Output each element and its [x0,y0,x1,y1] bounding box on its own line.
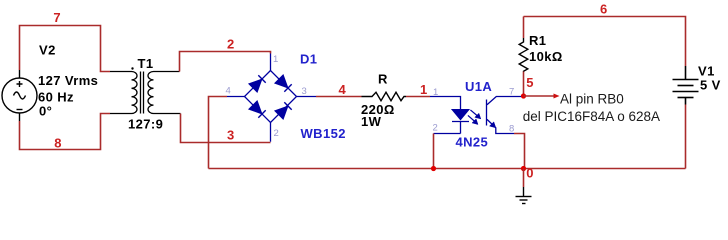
svg-text:5: 5 [526,75,533,90]
battery V1 [673,66,699,105]
svg-text:R: R [378,71,388,86]
pin 2 stub [270,123,272,142]
light arrow 1 [470,110,480,119]
pin 4 stub [227,96,245,98]
wire net 6 (top rail) [524,17,686,67]
diode D1d (bottom-right edge, points to right) [275,102,292,119]
transformer T1 [110,72,181,114]
svg-text:0: 0 [526,165,533,180]
pin 1 lead [430,97,461,110]
svg-text:4: 4 [226,86,231,97]
svg-text:8: 8 [54,136,61,151]
svg-text:V1: V1 [698,63,715,78]
svg-text:R1: R1 [529,33,546,48]
wire opto pin2 to rail [433,134,435,169]
junction dot opto pin2 [431,166,436,171]
source V2 [2,70,37,121]
ground [523,169,525,188]
svg-text:127:9: 127:9 [128,117,163,132]
transistor base bar [486,100,488,126]
svg-text:1: 1 [273,54,278,65]
LED stub down [460,122,462,134]
LED bar [452,121,469,123]
wire net 2 [180,52,271,72]
svg-text:3: 3 [302,86,307,97]
bridge rectifier D1 [227,54,316,142]
svg-text:2: 2 [227,37,234,52]
pin 1 stub [270,54,272,71]
wire net 3 [181,114,271,143]
svg-text:127 Vrms: 127 Vrms [38,73,98,88]
emitter [487,119,514,133]
wire node5 to RB0 arrow [524,95,555,97]
svg-text:T1: T1 [138,56,154,71]
svg-text:D1: D1 [300,51,317,66]
node 5 junction dot [521,93,526,98]
diode D1b (top-right edge, points to right) [275,75,292,92]
diode D1a (left-top edge, points to top) [249,75,266,92]
svg-text:1: 1 [420,82,427,97]
svg-text:del PIC16F84A o 628A: del PIC16F84A o 628A [523,109,660,124]
svg-text:Al pin RB0: Al pin RB0 [560,92,624,107]
battery bottom wire [685,105,687,169]
svg-text:3: 3 [227,128,234,143]
wire net 8 [20,114,111,150]
svg-text:U1A: U1A [465,79,492,94]
wire net 4 [316,96,362,98]
svg-text:2: 2 [274,128,279,139]
svg-text:1W: 1W [361,114,382,129]
bottom rail net 0 [209,168,686,170]
transformer phase dot [131,67,133,69]
svg-text:V2: V2 [39,43,56,58]
wire pin4 drop to rail [209,97,228,169]
resistor R1 [523,17,525,39]
svg-text:6: 6 [600,1,607,16]
svg-text:10kΩ: 10kΩ [529,49,563,64]
wire net 1 [406,96,430,98]
junction dot ground [521,166,526,171]
LED triangle [452,110,469,120]
svg-text:WB152: WB152 [301,126,346,141]
light arrow 2 [468,115,478,124]
svg-text:4N25: 4N25 [456,135,489,150]
diamond edges [245,71,297,123]
collector [487,97,524,105]
svg-text:7: 7 [53,10,60,25]
resistor R [362,92,407,100]
svg-text:0°: 0° [39,104,52,119]
optocoupler U1A [430,97,524,134]
emitter arrowhead [490,122,496,128]
svg-text:8: 8 [509,124,514,135]
wire net 7 [20,26,111,72]
svg-text:2: 2 [433,123,438,134]
svg-text:60 Hz: 60 Hz [38,89,74,104]
arrowhead to RB0 [554,94,560,99]
svg-text:7: 7 [509,87,514,98]
diode D1c (left-bottom edge, points to bottom) [249,101,266,118]
svg-text:1: 1 [433,87,438,98]
pin 3 stub [297,96,317,98]
svg-text:5 V: 5 V [700,77,721,92]
pin 2 lead [434,133,461,135]
svg-text:4: 4 [339,82,347,97]
wire emitter to rail [514,134,525,169]
